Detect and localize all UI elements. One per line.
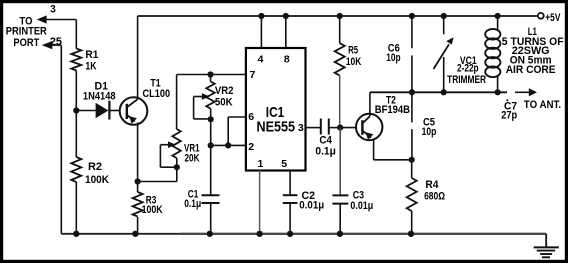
svg-text:8: 8 bbox=[284, 53, 290, 65]
svg-text:0.1μ: 0.1μ bbox=[184, 198, 201, 210]
svg-text:20K: 20K bbox=[185, 153, 200, 165]
svg-text:10K: 10K bbox=[346, 56, 361, 68]
svg-text:R1: R1 bbox=[85, 49, 98, 61]
svg-text:50K: 50K bbox=[215, 97, 233, 109]
svg-text:680Ω: 680Ω bbox=[424, 191, 445, 203]
svg-text:2: 2 bbox=[248, 141, 254, 153]
svg-text:100K: 100K bbox=[142, 204, 163, 216]
svg-text:1K: 1K bbox=[85, 60, 96, 72]
svg-text:4: 4 bbox=[258, 53, 264, 65]
svg-text:R4: R4 bbox=[425, 179, 439, 191]
svg-text:5: 5 bbox=[281, 158, 287, 170]
svg-text:1: 1 bbox=[258, 158, 264, 170]
svg-text:R5: R5 bbox=[348, 44, 358, 56]
svg-text:TO ANT.: TO ANT. bbox=[524, 99, 561, 111]
svg-text:CL100: CL100 bbox=[143, 88, 171, 100]
svg-text:NE555: NE555 bbox=[257, 119, 296, 136]
svg-text:3: 3 bbox=[298, 122, 304, 134]
svg-text:100K: 100K bbox=[85, 174, 109, 186]
svg-text:VR2: VR2 bbox=[215, 85, 234, 97]
svg-text:10p: 10p bbox=[386, 52, 401, 64]
svg-text:TRIMMER: TRIMMER bbox=[447, 74, 486, 86]
svg-text:PRINTER: PRINTER bbox=[6, 25, 47, 37]
svg-text:AIR CORE: AIR CORE bbox=[506, 64, 556, 76]
svg-text:25: 25 bbox=[50, 36, 62, 48]
svg-text:R2: R2 bbox=[88, 161, 102, 173]
svg-text:1N4148: 1N4148 bbox=[83, 91, 116, 103]
svg-text:0.1μ: 0.1μ bbox=[315, 145, 336, 157]
svg-text:10p: 10p bbox=[422, 126, 437, 138]
svg-text:+5V: +5V bbox=[545, 12, 561, 24]
svg-text:0.01μ: 0.01μ bbox=[299, 200, 324, 212]
svg-text:6: 6 bbox=[248, 111, 254, 123]
svg-text:27p: 27p bbox=[501, 110, 517, 122]
svg-text:BF194B: BF194B bbox=[375, 104, 410, 116]
svg-text:2-22p: 2-22p bbox=[457, 63, 479, 75]
svg-text:7: 7 bbox=[250, 69, 256, 81]
svg-text:3: 3 bbox=[50, 4, 56, 16]
svg-text:0.01μ: 0.01μ bbox=[350, 200, 373, 212]
svg-text:PORT: PORT bbox=[13, 37, 39, 49]
